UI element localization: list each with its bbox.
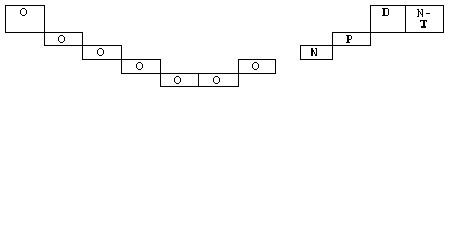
box P <box>333 33 371 46</box>
label hyphen of N-T line1 <box>426 13 430 14</box>
box N-T (tall) <box>406 6 444 33</box>
box O3 <box>83 46 122 60</box>
box D (tall) <box>371 6 406 33</box>
label O3 <box>97 48 104 56</box>
label O4 <box>136 62 143 70</box>
label D <box>382 8 389 16</box>
label T of N-T line2 <box>420 20 427 28</box>
box O2 <box>45 33 83 46</box>
label P <box>346 35 352 43</box>
label O5 <box>174 76 181 84</box>
box O6 (bottom-right) <box>199 74 239 87</box>
staircase diagram <box>0 0 449 93</box>
label N <box>311 48 317 56</box>
label O6 <box>213 76 220 84</box>
label N of N-T line1 <box>417 9 423 17</box>
label O1 <box>20 8 27 16</box>
box N <box>301 46 333 60</box>
box O5 (bottom-left) <box>161 74 199 87</box>
box O1 (tall, top-left) <box>6 6 45 33</box>
box O7 (step up) <box>239 60 276 74</box>
label O2 <box>58 35 65 43</box>
label O7 <box>252 62 259 70</box>
box O4 <box>122 60 161 74</box>
